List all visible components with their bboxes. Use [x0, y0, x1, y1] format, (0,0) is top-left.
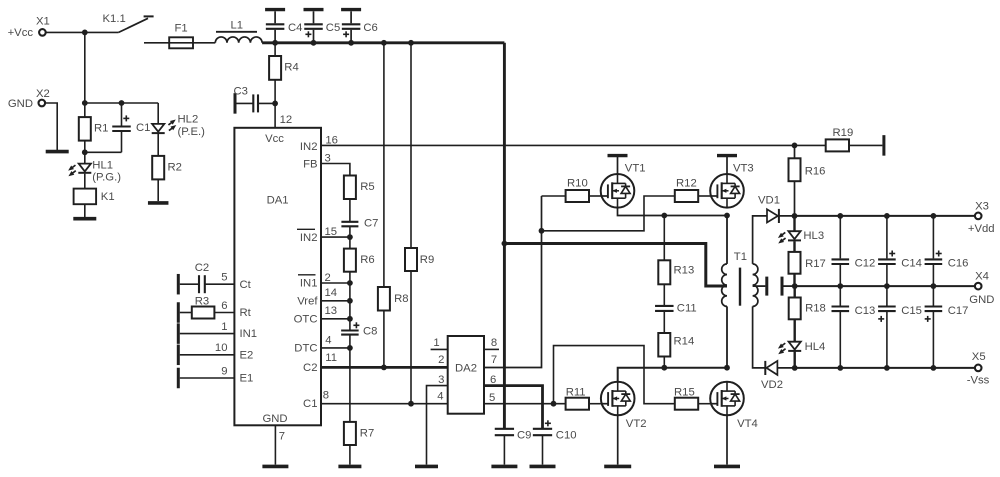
svg-text:VD1: VD1 [758, 195, 780, 207]
svg-text:3: 3 [325, 152, 331, 164]
resistor R5 [344, 176, 375, 200]
op-amp U: DA2 body [448, 336, 484, 414]
DA2 pin 7 to gate drive [484, 196, 542, 368]
svg-text:5: 5 [221, 272, 227, 284]
ground (X2) [46, 150, 69, 154]
svg-text:+Vdd: +Vdd [968, 223, 995, 235]
wire tap to GND rail [784, 285, 795, 287]
capacitor C7 [341, 199, 378, 237]
chassis bar (R19) [882, 135, 885, 156]
svg-text:+Vcc: +Vcc [8, 27, 34, 39]
node: R9/pin8 line [408, 401, 414, 407]
svg-text:C1: C1 [303, 398, 317, 410]
DA2 pin 4 label [437, 391, 443, 403]
svg-text:R11: R11 [566, 387, 586, 399]
svg-text:R5: R5 [360, 181, 374, 193]
node: top of R1 branch [82, 100, 88, 106]
node: snubber bottom [661, 365, 667, 371]
DA1 pin 10 E2 [178, 342, 253, 365]
capacitor C15 [878, 286, 922, 368]
svg-text:Vref: Vref [297, 295, 318, 307]
svg-text:1: 1 [221, 321, 227, 333]
wire VT1/VT3 sources [618, 208, 728, 216]
svg-text:8: 8 [491, 337, 497, 349]
svg-text:(P.E.): (P.E.) [178, 126, 206, 138]
svg-text:VT2: VT2 [626, 418, 647, 430]
chassis bar (VT1 drain) [608, 156, 628, 174]
resistor R7 [344, 422, 374, 465]
DA1 pin 8 C1 [303, 389, 448, 410]
svg-text:C10: C10 [556, 429, 577, 441]
svg-text:8: 8 [323, 389, 329, 401]
svg-text:X2: X2 [36, 88, 50, 100]
terminal X3 (+Vdd) [968, 201, 995, 236]
wire X1 to switch [46, 31, 119, 33]
node: VT1/VT3 gate tee [539, 228, 545, 234]
svg-text:6: 6 [221, 300, 227, 312]
svg-text:R3: R3 [195, 295, 209, 307]
ground (R7) [338, 465, 361, 469]
resistor R8 [378, 43, 409, 368]
node: -Vss rail start [792, 365, 798, 371]
DA1 pin 16 IN2 [300, 135, 795, 153]
capacitor C12 [832, 216, 876, 286]
svg-text:GND: GND [969, 294, 994, 306]
svg-text:DA1: DA1 [267, 194, 289, 206]
svg-text:R14: R14 [674, 335, 695, 347]
svg-text:K1.1: K1.1 [103, 13, 126, 25]
DA1 pin 11 C2 (push-pull out) [303, 352, 448, 374]
wire GND rail [795, 285, 975, 287]
transistor VT2 [601, 382, 647, 430]
svg-text:C11: C11 [677, 303, 697, 315]
ground (K1) [73, 217, 96, 221]
capacitor C9 [495, 429, 532, 465]
svg-text:2: 2 [438, 354, 444, 366]
terminal X2 (GND input) [8, 88, 50, 110]
svg-text:C9: C9 [517, 429, 531, 441]
node: C12/GND [837, 283, 843, 289]
svg-text:4: 4 [325, 334, 331, 346]
svg-text:R8: R8 [394, 293, 408, 305]
transformer T1 core [739, 268, 741, 306]
node: pin14 [347, 298, 353, 304]
ground (C10) [530, 465, 556, 469]
node: R9 column/bus [408, 40, 414, 46]
svg-text:X5: X5 [972, 351, 986, 363]
DA1 pin 15 /IN2 [297, 226, 350, 244]
svg-text:7: 7 [279, 431, 285, 443]
svg-text:R19: R19 [833, 127, 854, 139]
svg-text:T1: T1 [734, 251, 747, 263]
resistor R11 [566, 387, 601, 410]
svg-text:C17: C17 [948, 305, 969, 317]
svg-text:11: 11 [325, 352, 337, 364]
svg-text:R7: R7 [360, 427, 374, 439]
svg-text:R17: R17 [805, 258, 826, 270]
svg-text:16: 16 [325, 135, 338, 147]
node: C5/bus [311, 40, 317, 46]
node: C12/+Vdd [837, 213, 843, 219]
resistor R18 [789, 286, 826, 319]
ground (VT4) [714, 465, 740, 469]
resistor R10 [542, 178, 601, 202]
svg-text:E1: E1 [240, 373, 254, 385]
resistor R3 [178, 295, 251, 322]
capacitor C16 [925, 216, 969, 286]
svg-text:E2: E2 [240, 349, 254, 361]
node: +V feed tee [502, 241, 508, 247]
DA1 pin 13 OTC [294, 305, 350, 326]
svg-text:1: 1 [433, 337, 439, 349]
wire secondary center tap [753, 285, 766, 287]
svg-text:R13: R13 [674, 264, 695, 276]
chassis bar (tap left) [765, 277, 768, 296]
svg-text:C3: C3 [234, 85, 248, 97]
svg-text:C2: C2 [303, 362, 317, 374]
svg-text:FB: FB [303, 158, 317, 170]
svg-text:(P.G.): (P.G.) [92, 172, 121, 184]
capacitor C10 [533, 420, 577, 464]
svg-text:GND: GND [262, 413, 287, 425]
pin 12 label [280, 114, 293, 126]
node: VT3 source/primary [724, 213, 730, 219]
DA1 pin 9 E1 [178, 365, 253, 388]
node: C16/GND [931, 283, 937, 289]
node: C16/+Vdd [931, 213, 937, 219]
node: feedback tee [792, 143, 798, 149]
wire pin4 node down to R7 [349, 348, 351, 422]
svg-text:VD2: VD2 [761, 379, 783, 391]
node: VT4 drain/primary [724, 365, 730, 371]
node: pin13 [347, 316, 353, 322]
svg-text:13: 13 [325, 305, 338, 317]
svg-text:-Vss: -Vss [967, 375, 990, 387]
DA1 pin 14 Vref [297, 287, 350, 307]
svg-text:C12: C12 [855, 257, 876, 269]
svg-text:F1: F1 [175, 23, 188, 35]
svg-text:9: 9 [221, 365, 227, 377]
svg-text:4: 4 [437, 391, 443, 403]
DA2 pin 8 stub [484, 337, 499, 350]
node: R17/GND rail [792, 283, 798, 289]
wire +V to transformer center tap [504, 244, 727, 287]
node: snubber top [661, 213, 667, 219]
svg-text:C14: C14 [901, 257, 922, 269]
svg-text:C5: C5 [326, 22, 340, 34]
svg-text:2: 2 [325, 272, 331, 284]
ground (R2) [148, 201, 169, 205]
svg-text:10: 10 [215, 342, 228, 354]
svg-text:VT1: VT1 [625, 163, 646, 175]
svg-text:L1: L1 [231, 19, 244, 31]
DA2 pin 5 [484, 392, 566, 404]
terminal X1 (+Vcc input) [8, 16, 50, 40]
capacitor C4 [265, 10, 302, 43]
svg-text:C7: C7 [364, 217, 378, 229]
svg-text:Rt: Rt [240, 307, 252, 319]
resistor R2 [152, 133, 182, 201]
resistor R17 [789, 241, 826, 286]
svg-text:IN2: IN2 [300, 141, 318, 153]
svg-text:HL2: HL2 [178, 113, 199, 125]
svg-text:IN1: IN1 [300, 278, 318, 290]
svg-text:5: 5 [489, 392, 495, 404]
svg-text:R15: R15 [674, 387, 695, 399]
svg-text:IN1: IN1 [240, 328, 258, 340]
DA2 pin 3 [427, 374, 448, 464]
resistor R14 [658, 333, 694, 368]
ground (C9) [491, 465, 517, 469]
ground (DA2 pin3) [415, 465, 438, 469]
chassis bar (tap right) [781, 277, 784, 296]
capacitor C1 (polarized) [112, 103, 150, 152]
transistor VT1 [601, 163, 646, 208]
wire K1 to ground [84, 204, 86, 217]
svg-text:Ct: Ct [240, 279, 252, 291]
resistor R19 [795, 127, 883, 151]
switch K1.1 [103, 13, 154, 32]
capacitor C2 [178, 262, 251, 295]
LED HL3 [777, 216, 825, 245]
wire +V vertical feed [503, 43, 506, 429]
svg-text:C2: C2 [195, 262, 209, 274]
LED HL2 (P.E.) [152, 103, 205, 138]
node: C13/-Vss [837, 365, 843, 371]
resistor R9 [405, 43, 434, 404]
svg-text:Vcc: Vcc [265, 133, 284, 145]
wire gate branch to R15 [554, 346, 675, 404]
svg-text:7: 7 [491, 354, 497, 366]
svg-text:C4: C4 [288, 22, 302, 34]
svg-text:R9: R9 [420, 254, 434, 266]
svg-text:C13: C13 [855, 305, 876, 317]
wire gate branch to R12 [542, 196, 675, 231]
capacitor C5 (polarized) [304, 10, 341, 43]
svg-text:HL3: HL3 [803, 230, 824, 242]
transformer T1 secondary [753, 264, 758, 307]
svg-text:R12: R12 [676, 178, 697, 190]
svg-text:DA2: DA2 [455, 362, 477, 374]
svg-text:VT4: VT4 [737, 418, 758, 430]
svg-text:R1: R1 [94, 122, 108, 134]
svg-text:C1: C1 [136, 122, 150, 134]
resistor R16 [789, 145, 826, 216]
ground (DA1 pin7) [262, 465, 288, 469]
resistor R13 [658, 216, 694, 285]
capacitor C8 (polarized) [341, 322, 377, 348]
DA1 pin 1 IN1 [178, 321, 257, 344]
transistor VT4 [710, 382, 758, 430]
wire F1 to L1 [193, 42, 215, 44]
wire across R1/C1/HL2 tops [85, 102, 158, 104]
wire junction down to R1 branch [84, 32, 86, 103]
capacitor C3 [234, 85, 276, 113]
fuse F1 [169, 23, 193, 49]
wire main +V bus [262, 41, 504, 44]
node: C14/+Vdd [884, 213, 890, 219]
svg-text:6: 6 [490, 374, 496, 386]
DA2 pin 6 to C10 [484, 374, 543, 429]
node: R8 column/bus [381, 40, 387, 46]
resistor R1 [79, 103, 109, 152]
ground (VT2) [604, 465, 631, 469]
wire X2 to ground [45, 103, 57, 150]
svg-text:GND: GND [8, 98, 33, 110]
diode VD2 [761, 361, 795, 391]
DA2 pin 1 [431, 337, 448, 349]
node: R1/C1 bottom [82, 149, 88, 155]
DA1 pin 2 /IN1 [298, 272, 350, 290]
capacitor C17 [925, 286, 969, 368]
svg-text:C6: C6 [363, 22, 377, 34]
capacitor C13 [832, 286, 876, 368]
node: +Vdd rail start [792, 213, 798, 219]
terminal X4 (GND) [969, 270, 994, 306]
svg-text:X3: X3 [975, 201, 989, 213]
svg-text:14: 14 [325, 287, 338, 299]
capacitor C14 [878, 216, 922, 286]
node: X1 junction [82, 30, 88, 36]
wire VT2 source to ground [617, 415, 619, 464]
node: VT2/VT4 gate tee [551, 401, 557, 407]
svg-text:HL1: HL1 [92, 159, 113, 171]
wire +Vdd rail [795, 215, 975, 217]
resistor R12 [675, 178, 710, 202]
svg-text:R16: R16 [805, 165, 826, 177]
node: C6/bus [348, 40, 354, 46]
svg-text:IN2: IN2 [300, 232, 318, 244]
node: pin2/R6 [347, 280, 353, 286]
DA2 pin 2 label [438, 354, 444, 366]
diode VD1 [758, 195, 795, 224]
svg-text:R10: R10 [567, 178, 588, 190]
DA1 pin 7 GND [275, 425, 285, 464]
wire -Vss rail [795, 367, 975, 369]
wire VT4 source to ground [726, 415, 728, 464]
inductor L1 [215, 19, 262, 43]
LED HL4 [777, 319, 826, 368]
svg-text:DTC: DTC [294, 342, 317, 354]
wire pins 2-14-13 common [349, 283, 351, 331]
terminal X5 (-Vss) [967, 351, 990, 386]
capacitor C11 [655, 284, 697, 333]
svg-text:K1: K1 [101, 191, 115, 203]
svg-text:12: 12 [280, 114, 293, 126]
wire switch to fuse F1 [144, 42, 169, 44]
svg-text:X4: X4 [975, 270, 989, 282]
node: R8/pin11 line [381, 365, 387, 371]
svg-text:R4: R4 [284, 62, 298, 74]
node: C14/GND [884, 283, 890, 289]
node: C15/-Vss [884, 365, 890, 371]
svg-text:X1: X1 [36, 16, 50, 28]
DA1 pin 4 DTC [294, 334, 350, 354]
transformer T1 primary [722, 216, 747, 368]
node: pin15/C7/R6 [347, 234, 353, 240]
transistor VT3 [710, 163, 754, 208]
svg-text:VT3: VT3 [733, 163, 754, 175]
node: pin4/C8/R7 [347, 345, 353, 351]
resistor R15 [674, 387, 710, 410]
svg-text:15: 15 [325, 226, 338, 238]
wire secondary top to VD1 [753, 216, 767, 264]
svg-text:3: 3 [438, 374, 444, 386]
node: R4/C3 junction [272, 101, 278, 107]
LED HL1 (P.G.) [67, 152, 121, 183]
chassis bar (VT3 drain) [717, 156, 737, 174]
svg-text:C15: C15 [901, 305, 922, 317]
node: C4/bus [272, 40, 278, 46]
resistor R4 [269, 43, 299, 128]
wire C1 bottom to R1 bottom [85, 151, 122, 153]
svg-text:OTC: OTC [294, 313, 318, 325]
svg-text:R6: R6 [360, 254, 374, 266]
op-amp U: DA1 body [234, 128, 321, 426]
node: C17/-Vss [931, 365, 937, 371]
wire secondary bottom to VD2 [753, 306, 766, 368]
relay coil K1 [74, 174, 115, 205]
svg-text:HL4: HL4 [805, 341, 826, 353]
svg-text:C8: C8 [363, 325, 377, 337]
wire VT2/VT4 drains [618, 368, 727, 382]
svg-text:C16: C16 [948, 257, 969, 269]
capacitor C6 (polarized) [341, 10, 378, 43]
node: C1 top [119, 100, 125, 106]
resistor R6 [344, 237, 375, 283]
svg-text:R2: R2 [168, 162, 182, 174]
svg-text:R18: R18 [805, 303, 826, 315]
DA1 pin 3 FB [303, 152, 350, 175]
